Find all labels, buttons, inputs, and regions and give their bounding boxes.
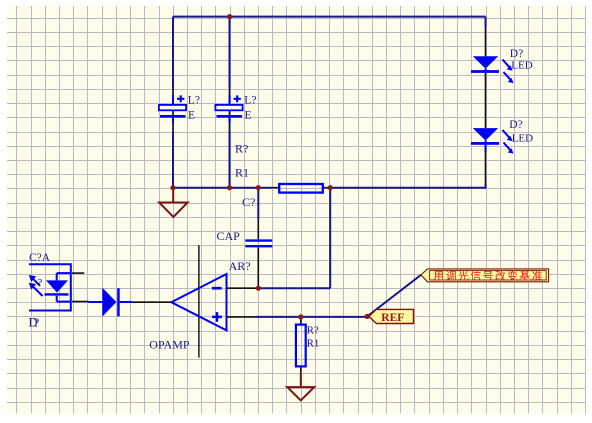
resistor R1 (vertical, bottom) [296, 317, 320, 372]
wire capacitor L?-2 bottom to ground rail [229, 130, 231, 188]
wire ground rail (middle horizontal) [173, 187, 486, 189]
svg-text:L?: L? [188, 95, 200, 107]
node junction inverting input / cap C? / feedback [256, 286, 261, 291]
wire feedback bottom horizontal [258, 287, 330, 289]
node junction resistor R1 (vertical) top [298, 314, 303, 319]
node junction on top rail (cap 2 tap) [227, 14, 232, 19]
svg-text:?: ? [34, 316, 40, 330]
capacitor L? (electrolytic, left) [159, 89, 200, 131]
svg-text:R1: R1 [307, 337, 320, 349]
svg-text:AR?: AR? [229, 259, 251, 273]
op-amp AR? [149, 245, 250, 357]
svg-text:D?: D? [510, 48, 523, 60]
diode D? (series) [89, 288, 133, 317]
pin optocoupler cathode to diode [72, 301, 89, 303]
svg-text:CAP: CAP [217, 229, 241, 243]
node junction rail / resistor R1 right / feedback branch [328, 185, 333, 190]
capacitor C? [217, 188, 273, 289]
optocoupler C?A [29, 252, 71, 310]
svg-text:D?: D? [509, 119, 522, 131]
svg-text:E: E [188, 110, 195, 122]
wire top rail [173, 17, 486, 89]
svg-text:OPAMP: OPAMP [149, 338, 190, 352]
svg-text:C?: C? [242, 195, 255, 209]
svg-text:LED: LED [512, 133, 533, 145]
svg-text:C?A: C?A [29, 252, 51, 264]
svg-text:R?: R? [235, 141, 248, 155]
wire top rail right drop to LED string [485, 17, 487, 27]
pin optocoupler anode stub [72, 272, 84, 274]
node junction ground rail / cap 1 / ground [170, 185, 175, 190]
node junction rail / resistor R1 left / cap C? branch [256, 185, 261, 190]
pin op-amp non-inverting input [227, 316, 257, 318]
LED D? (bottom) [471, 119, 533, 154]
wire capacitor L?-1 bottom to ground rail [172, 130, 174, 188]
svg-text:LED: LED [511, 60, 532, 72]
svg-text:R1: R1 [235, 166, 249, 180]
wire capacitor L?-2 top drop [229, 17, 231, 89]
wire diagonal to callout [367, 275, 421, 317]
svg-text:REF: REF [381, 312, 404, 324]
svg-text:E: E [245, 110, 252, 122]
port callout (dimming signal note) [421, 269, 549, 282]
pin op-amp output [132, 301, 171, 303]
ground (bottom) [287, 372, 314, 400]
wire LED string vertical [485, 27, 487, 189]
capacitor L? (electrolytic, right) [215, 89, 256, 131]
pin op-amp inverting input [227, 287, 259, 289]
svg-text:L?: L? [244, 95, 256, 107]
resistor R1 (horizontal) [235, 141, 327, 192]
ground (left) [159, 189, 187, 217]
port REF [369, 309, 414, 324]
LED D? (top) [471, 48, 533, 83]
wire feedback right vertical [329, 188, 331, 289]
node junction REF [365, 314, 370, 319]
svg-text:R?: R? [307, 324, 319, 336]
node junction ground rail / cap 2 [227, 185, 232, 190]
svg-text:?: ? [37, 277, 42, 289]
wire non-inverting input to REF node [256, 316, 367, 318]
